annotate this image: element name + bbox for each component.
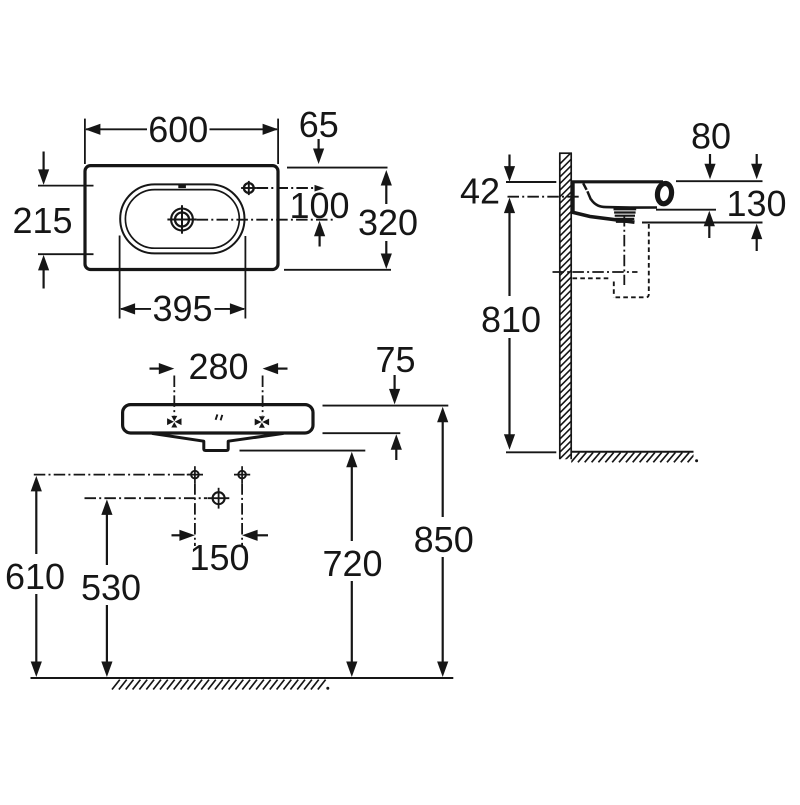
left fixing hole crosshair [191,471,199,479]
dim 150 line left part [172,534,182,536]
siphon outlet crosshair [213,492,225,504]
siphon level dash-dot line [85,497,208,499]
dim 280 line left part [150,368,162,370]
side view underside line [572,212,635,222]
dim 850 upper shaft [442,418,444,517]
dim 395 left extension line [119,236,121,319]
dim 395 right arrow [230,303,246,314]
dim 610 bottom arrow [31,662,42,678]
dim 215 top arrow shaft [42,152,44,173]
dim 600 left extension line [84,119,86,164]
dim 850 top arrow [437,407,448,423]
tap hole dash-dot line [257,187,314,189]
dim 720 lower shaft [351,581,353,665]
dim 600 left arrow [85,124,101,135]
dim 320 bottom arrow [381,254,392,270]
dim 80 up arrow [704,211,715,227]
right fixing hole crosshair [238,471,246,479]
fixing holes level dash-dot line [34,474,191,476]
dim 80 up arrow shaft [708,223,710,239]
dim 720 bottom arrow [346,662,357,678]
svg-text:65: 65 [299,104,339,145]
dim 810 upper shaft [508,209,510,296]
side view front edge hook [656,183,673,205]
siphon outlet axis dash-dot [553,271,638,273]
dim 530 upper shaft [106,511,108,565]
left fixing hole vertical dash-dot [194,483,196,546]
dim 215 bottom extension line [38,253,94,255]
dim 42 / 810 shared up arrow [504,198,515,214]
dim 215 top extension line [38,185,94,187]
dim 42 down arrow [504,166,515,182]
overflow slot marks [216,414,223,420]
svg-text:810: 810 [481,299,541,340]
basin outer oval [120,184,244,253]
bottom edge extension line right [284,269,391,271]
dim 280 line right part [276,368,288,370]
hidden trap left dashed vertical [613,282,615,298]
drain crosshair horizontal tick [167,219,196,221]
dim 100 arrow mark on tap line [315,185,325,192]
dim 100 bottom up arrow [314,221,325,237]
side view bowl back slant upper [583,183,586,190]
dim 280 left dash-dot extension [173,376,175,416]
drain axis dash-dot vertical [623,215,625,285]
overflow mark [178,184,186,188]
hidden trap right dashed vertical [648,224,650,292]
side view basin back edge [572,182,575,214]
dim 150 left arrow [179,530,195,541]
washbasin top view outline [85,166,278,270]
right fixing hole vertical dash-dot [241,483,243,546]
dim 130 arrow shaft top [756,154,758,168]
drain crosshair inner circle [175,213,189,227]
dim 850 bottom arrow [437,662,448,678]
front view floor hatching [112,680,326,690]
dim 810 lower shaft [508,338,510,438]
dim 720 top arrow [346,452,357,468]
drain crosshair outer circle [171,209,193,231]
dim 65 down arrow [313,149,324,165]
dim 600 right arrow [263,124,279,135]
side floor hatching end dot [695,459,698,462]
dim 850 lower shaft [442,557,444,665]
svg-text:610: 610 [5,556,65,597]
svg-text:80: 80 [691,116,731,157]
dim 320 upper shaft [385,182,387,204]
dim 80 arrow shaft [709,154,711,168]
dim 395 line right part [215,308,245,310]
dim 130 down arrow [751,164,762,180]
dim 215 bottom arrow shaft [42,268,44,289]
drain centre dash-dot line [197,219,333,221]
svg-text:395: 395 [152,288,212,329]
drain coupling hatch lines [614,208,637,210]
dim 280 right arrow [263,363,279,374]
washbasin front view outline [123,405,313,433]
drain outlet extension line [240,450,366,452]
dim 130 up arrow shaft [756,236,758,252]
svg-text:320: 320 [358,202,418,243]
dim 610 top arrow [31,476,42,492]
dim 130 up arrow [751,224,762,240]
dim 320 lower shaft [385,241,387,259]
dim 600 right extension line [277,119,279,164]
dim 395 line left part [121,308,151,310]
dim 75 down arrow [389,389,400,405]
fixing level dash-dot line [508,196,581,198]
dim 215 bottom arrow [38,255,49,271]
dim 530 lower shaft [106,605,108,665]
svg-text:150: 150 [189,537,249,578]
dim 395 left arrow [120,303,136,314]
svg-text:42: 42 [460,171,500,212]
front view drain profile [152,433,284,450]
right tap hole knockout symbol [255,419,262,426]
hidden trap pipe bottom dashed [573,277,612,279]
dim 395 right extension line [244,236,246,319]
dim 530 bottom arrow [101,662,112,678]
svg-text:75: 75 [375,339,415,380]
svg-text:530: 530 [81,567,141,608]
dim 600 line left part [86,128,147,130]
dim 42 top arrow shaft [508,155,510,171]
dim 810 bottom arrow [504,434,515,450]
rim level extension line right [676,180,763,182]
side view floor line right of wall [571,451,693,453]
drain crosshair vertical tick [181,205,183,234]
tap hole vertical tick [248,181,250,195]
basin inner oval [125,190,239,249]
wall left edge [559,153,561,459]
floor hatching end dot [326,687,329,690]
front top edge extension line [323,405,449,407]
overflow level extension line [656,209,716,211]
side view bowl back slant lower [587,191,591,199]
underside level extension line [642,222,763,224]
dim 150 line right part [256,534,269,536]
dim 215 top arrow [38,169,49,185]
svg-text:100: 100 [289,185,349,226]
dim 100 bottom arrow shaft [319,233,321,247]
svg-text:130: 130 [726,183,786,224]
dim 65 arrow shaft [318,139,320,151]
dim 80 down arrow [704,164,715,180]
dim 600 line right part [210,128,278,130]
tap hole crosshair circle [244,183,254,193]
dim 280 left arrow [159,363,175,374]
front view floor line [31,677,454,679]
left tap hole knockout symbol [167,418,174,425]
svg-text:600: 600 [148,109,208,150]
svg-text:280: 280 [188,346,248,387]
svg-text:720: 720 [322,543,382,584]
dim 610 lower shaft [35,594,37,665]
dim 75 up arrow shaft [395,447,397,461]
front bottom edge extension line [323,432,401,434]
dim 720 upper shaft [351,463,353,541]
wall face line [570,153,572,459]
dim 75 arrow shaft [394,375,396,392]
dim 610 upper shaft [35,488,37,555]
dim 320 top arrow [381,170,392,186]
wall top cap [559,152,572,154]
side view floor line left of wall [506,451,556,453]
dim 530 top arrow [101,499,112,515]
top edge extension line right [287,167,388,169]
tap hole horizontal tick [241,187,257,189]
rim level extension line left [506,181,556,183]
side view rim top line [571,180,663,183]
dim 75 up arrow under bottom line [391,434,402,450]
svg-text:215: 215 [12,200,72,241]
dim 150 right arrow [242,530,258,541]
side view bowl curve [591,199,657,207]
dim 280 right dash-dot extension [262,376,264,416]
svg-text:850: 850 [414,519,474,560]
hidden trap bottom dashed [616,294,649,297]
